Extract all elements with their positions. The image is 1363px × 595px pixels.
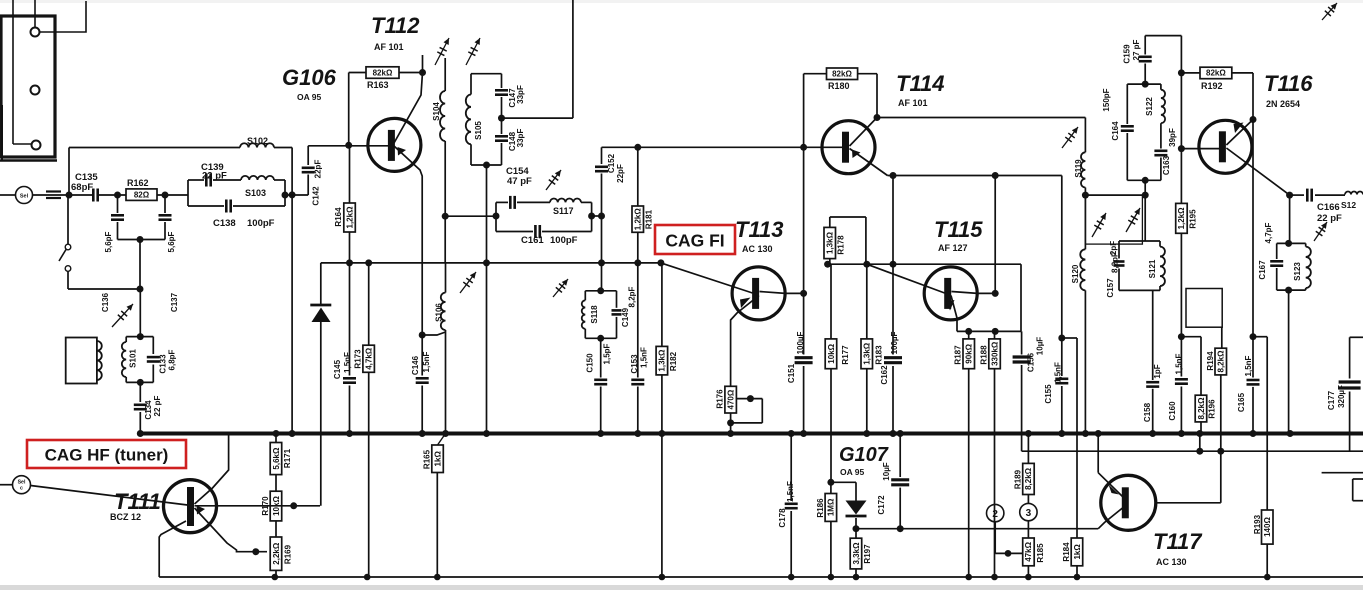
svg-text:T114: T114 (896, 71, 945, 96)
svg-text:AF 101: AF 101 (374, 42, 404, 52)
svg-text:C158: C158 (1143, 402, 1152, 422)
svg-text:S12: S12 (1341, 200, 1356, 210)
svg-text:R197: R197 (863, 544, 872, 564)
svg-text:Sel: Sel (20, 194, 29, 200)
svg-text:R193: R193 (1253, 514, 1262, 534)
svg-text:47kΩ: 47kΩ (1024, 541, 1033, 561)
svg-text:100µF: 100µF (796, 331, 805, 354)
svg-text:S101: S101 (129, 349, 138, 368)
svg-text:33pF: 33pF (516, 129, 525, 148)
svg-text:4,7pF: 4,7pF (1264, 222, 1273, 243)
svg-text:1,5nF: 1,5nF (343, 352, 352, 373)
svg-text:8,2kΩ: 8,2kΩ (1024, 467, 1033, 490)
svg-text:C138: C138 (213, 218, 236, 229)
svg-text:3,3kΩ: 3,3kΩ (852, 542, 861, 565)
svg-text:R163: R163 (367, 80, 389, 90)
svg-text:R171: R171 (283, 448, 292, 468)
svg-text:C157: C157 (1106, 278, 1115, 298)
svg-text:R183: R183 (874, 345, 883, 365)
svg-text:S104: S104 (432, 102, 441, 121)
svg-text:10µF: 10µF (882, 462, 891, 481)
svg-text:C155: C155 (1044, 384, 1053, 404)
svg-text:R180: R180 (828, 81, 850, 91)
svg-text:C164: C164 (1111, 121, 1120, 141)
svg-text:C167: C167 (1258, 260, 1267, 280)
svg-text:1,5nF: 1,5nF (1174, 353, 1183, 374)
svg-text:R188: R188 (979, 345, 988, 365)
svg-text:G106: G106 (282, 65, 337, 90)
svg-text:1kΩ: 1kΩ (1073, 544, 1082, 560)
svg-text:10µF: 10µF (1035, 337, 1044, 356)
svg-text:R184: R184 (1062, 542, 1071, 562)
svg-text:R195: R195 (1188, 209, 1197, 229)
svg-text:T115: T115 (934, 217, 983, 242)
svg-text:R192: R192 (1201, 81, 1223, 91)
svg-text:S121: S121 (1148, 259, 1157, 278)
svg-text:5,6pF: 5,6pF (167, 231, 176, 252)
svg-text:BCZ 12: BCZ 12 (110, 512, 141, 522)
svg-text:S105: S105 (474, 121, 483, 140)
svg-text:C165: C165 (1237, 392, 1246, 412)
svg-text:68pF: 68pF (71, 182, 93, 193)
svg-text:T113: T113 (735, 217, 784, 242)
svg-text:S122: S122 (1145, 97, 1154, 116)
svg-text:8,2pF: 8,2pF (1110, 252, 1119, 273)
svg-text:C152: C152 (607, 153, 616, 173)
svg-text:1,5nF: 1,5nF (1053, 362, 1062, 383)
svg-text:5,6kΩ: 5,6kΩ (272, 447, 281, 470)
svg-text:R177: R177 (841, 345, 850, 365)
svg-text:1,2kΩ: 1,2kΩ (345, 206, 354, 229)
svg-text:82kΩ: 82kΩ (373, 68, 393, 77)
svg-text:100pF: 100pF (247, 218, 275, 229)
svg-text:R176: R176 (715, 389, 724, 409)
svg-text:100µF: 100µF (890, 331, 899, 354)
svg-text:C161: C161 (521, 235, 544, 246)
svg-text:R186: R186 (816, 498, 825, 518)
svg-text:R165: R165 (422, 449, 431, 469)
svg-text:C150: C150 (585, 353, 594, 373)
svg-text:330kΩ: 330kΩ (990, 341, 999, 366)
svg-text:R185: R185 (1036, 543, 1045, 563)
svg-text:C149: C149 (621, 307, 630, 327)
svg-text:1,5nF: 1,5nF (1244, 355, 1253, 376)
svg-text:R181: R181 (644, 209, 653, 229)
svg-text:150pF: 150pF (1102, 88, 1111, 111)
svg-text:C160: C160 (1168, 401, 1177, 421)
svg-text:C136: C136 (101, 292, 110, 312)
svg-text:47 pF: 47 pF (507, 176, 532, 187)
svg-text:T111: T111 (114, 489, 161, 514)
svg-text:140Ω: 140Ω (1263, 517, 1272, 537)
svg-text:C172: C172 (877, 495, 886, 515)
svg-text:AF 127: AF 127 (938, 243, 968, 253)
svg-text:S106: S106 (434, 303, 443, 322)
svg-text:S117: S117 (553, 206, 574, 216)
svg-text:1,5nF: 1,5nF (786, 481, 795, 502)
svg-text:AF 101: AF 101 (898, 98, 928, 108)
svg-text:3: 3 (1026, 508, 1032, 519)
svg-text:22 pF: 22 pF (153, 395, 162, 416)
svg-text:2: 2 (992, 509, 998, 520)
svg-text:C134: C134 (144, 400, 153, 420)
svg-text:R173: R173 (353, 349, 362, 369)
svg-text:CAG FI: CAG FI (665, 231, 724, 251)
svg-text:C137: C137 (170, 292, 179, 312)
svg-text:S120: S120 (1071, 264, 1080, 283)
svg-text:OA 95: OA 95 (840, 467, 865, 477)
svg-text:320µF: 320µF (1337, 385, 1346, 408)
svg-text:C156: C156 (1026, 352, 1035, 372)
svg-text:82Ω: 82Ω (134, 191, 150, 200)
svg-text:8,2kΩ: 8,2kΩ (1217, 350, 1226, 373)
svg-text:R194: R194 (1206, 351, 1215, 371)
svg-text:S118: S118 (590, 305, 599, 324)
svg-text:33pF: 33pF (516, 85, 525, 104)
svg-text:C142: C142 (311, 186, 320, 206)
svg-text:S102: S102 (247, 136, 268, 146)
svg-text:S123: S123 (1293, 262, 1302, 281)
svg-text:1,3kΩ: 1,3kΩ (863, 342, 872, 365)
svg-text:C151: C151 (787, 363, 796, 383)
svg-text:39pF: 39pF (1168, 128, 1177, 147)
svg-text:T117: T117 (1153, 529, 1203, 554)
svg-text:22 pF: 22 pF (1317, 213, 1342, 224)
svg-text:S119: S119 (1074, 159, 1083, 178)
svg-text:100pF: 100pF (550, 235, 578, 246)
svg-text:R164: R164 (334, 207, 343, 227)
svg-text:5,6pF: 5,6pF (104, 231, 113, 252)
svg-text:4,7kΩ: 4,7kΩ (365, 347, 374, 370)
svg-text:82kΩ: 82kΩ (1206, 69, 1226, 78)
svg-text:AC 130: AC 130 (1156, 557, 1187, 567)
svg-text:R162: R162 (127, 178, 149, 188)
svg-text:10kΩ: 10kΩ (827, 343, 836, 363)
svg-text:CAG HF (tuner): CAG HF (tuner) (45, 446, 169, 465)
svg-text:S103: S103 (245, 188, 266, 198)
svg-text:C133: C133 (158, 354, 167, 374)
svg-text:6,8pF: 6,8pF (167, 349, 176, 370)
svg-text:AC 130: AC 130 (742, 244, 773, 254)
svg-text:8,2kΩ: 8,2kΩ (1197, 397, 1206, 420)
svg-text:R182: R182 (669, 351, 678, 371)
svg-text:1,5nF: 1,5nF (422, 351, 431, 372)
svg-text:1,3kΩ: 1,3kΩ (658, 349, 667, 372)
svg-text:27 pF: 27 pF (1132, 39, 1141, 60)
svg-text:c: c (20, 486, 23, 492)
svg-text:R178: R178 (836, 235, 845, 255)
svg-text:2,2kΩ: 2,2kΩ (272, 542, 281, 565)
svg-text:82kΩ: 82kΩ (832, 70, 852, 79)
svg-text:T116: T116 (1264, 71, 1313, 96)
svg-text:C166: C166 (1317, 202, 1340, 213)
svg-text:22 pF: 22 pF (202, 171, 227, 182)
svg-text:2N 2654: 2N 2654 (1266, 99, 1300, 109)
svg-text:R196: R196 (1207, 399, 1216, 419)
svg-text:1,2kΩ: 1,2kΩ (634, 208, 643, 231)
svg-text:1,5pF: 1,5pF (602, 343, 611, 364)
svg-text:1,2kΩ: 1,2kΩ (1177, 207, 1186, 230)
svg-text:1kΩ: 1kΩ (433, 451, 442, 467)
svg-text:1,5nF: 1,5nF (639, 347, 648, 368)
svg-text:C146: C146 (411, 355, 420, 375)
svg-text:470Ω: 470Ω (726, 389, 735, 409)
svg-text:C159: C159 (1122, 44, 1131, 64)
svg-text:1pF: 1pF (1153, 364, 1162, 378)
svg-text:1MΩ: 1MΩ (827, 498, 836, 516)
svg-text:C145: C145 (333, 359, 342, 379)
svg-text:R169: R169 (283, 544, 292, 564)
svg-text:OA 95: OA 95 (297, 92, 322, 102)
svg-text:R189: R189 (1013, 469, 1022, 489)
svg-text:C178: C178 (778, 508, 787, 528)
svg-text:1,3kΩ: 1,3kΩ (826, 231, 835, 254)
svg-text:C177: C177 (1327, 390, 1336, 410)
svg-text:C163: C163 (1162, 155, 1171, 175)
svg-text:22pF: 22pF (313, 160, 322, 179)
svg-text:90kΩ: 90kΩ (965, 343, 974, 363)
svg-text:R187: R187 (953, 345, 962, 365)
svg-text:T112: T112 (371, 13, 420, 38)
svg-text:22pF: 22pF (616, 164, 625, 183)
svg-text:C162: C162 (880, 365, 889, 385)
svg-text:C153: C153 (630, 354, 639, 374)
svg-text:8,2pF: 8,2pF (627, 286, 636, 307)
